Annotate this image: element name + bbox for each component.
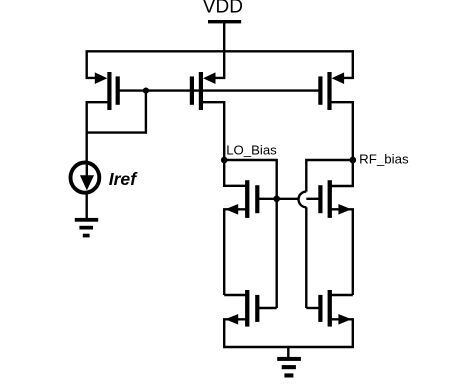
wire gate cross left segment	[277, 198, 299, 200]
svg-text:Iref: Iref	[109, 169, 139, 189]
wire ground stub	[287, 347, 289, 358]
nmos M6 channel	[328, 180, 332, 218]
pmos M3 source arrow	[332, 72, 345, 84]
nmos M7 gate bar	[318, 295, 322, 322]
wire VDD stem	[223, 23, 225, 52]
svg-text:RF_bias: RF_bias	[359, 152, 409, 167]
nmos M4 drain wire	[224, 160, 246, 186]
wire ground rail	[224, 346, 353, 348]
nmos M7 gate wire	[306, 307, 319, 309]
nmos M5 drain wire	[224, 294, 246, 296]
VDD supply bar	[208, 20, 241, 23]
nmos M5 source wire	[224, 319, 246, 347]
svg-text:LO_Bias: LO_Bias	[226, 143, 277, 158]
nmos M6 drain wire	[331, 160, 353, 186]
pmos M1 channel	[107, 72, 111, 110]
wire hop column to M7 gate	[305, 207, 307, 308]
nmos M6 source arrow	[338, 204, 351, 215]
junction dot M1 gate-drain	[143, 88, 149, 94]
ground (main)	[277, 357, 301, 378]
junction dot M4 gate	[273, 196, 280, 203]
pmos M2 gate bar	[190, 76, 194, 104]
nmos M5 source arrow	[225, 314, 238, 325]
pmos M3 channel	[327, 72, 331, 110]
pmos M3 gate bar	[318, 76, 322, 104]
nmos M5 gate wire	[259, 307, 277, 309]
nmos M6 gate bar	[318, 185, 322, 213]
pmos M1 gate wire	[119, 89, 146, 91]
wire gate cross right segment	[306, 198, 319, 200]
nmos M4 source wire	[224, 209, 246, 295]
wire Iref to ground	[85, 194, 87, 219]
nmos M5 channel	[245, 290, 249, 327]
svg-text:VDD: VDD	[203, 0, 243, 18]
pmos M3 drain wire	[331, 102, 353, 160]
nmos M7 channel	[328, 290, 332, 327]
wire top rail	[87, 50, 353, 52]
nmos M5 gate bar	[255, 295, 259, 322]
nmos M7 drain wire	[331, 294, 353, 296]
wire LO gate column lower	[276, 199, 278, 308]
nmos M4 channel	[245, 180, 249, 218]
nmos M7 source arrow	[338, 314, 351, 325]
pmos M2 source arrow	[203, 72, 216, 84]
nmos M4 gate bar	[255, 185, 259, 213]
nmos M6 source wire	[331, 209, 353, 295]
wire gate bus M1-M2-M3	[146, 89, 319, 91]
ground (Iref)	[75, 218, 98, 238]
node RF_bias dot	[349, 157, 356, 164]
nmos M4 source arrow	[225, 204, 238, 215]
current source Iref circle	[71, 163, 100, 193]
Iref arrow stem	[86, 164, 88, 180]
nmos M7 source wire	[331, 319, 353, 347]
pmos M2 drain wire	[202, 102, 224, 160]
pmos M1 source wire	[87, 51, 96, 78]
pmos M2 channel	[199, 72, 203, 110]
pmos M3 source wire	[343, 51, 353, 78]
wire hop arc	[299, 192, 307, 208]
Iref arrow head	[80, 175, 94, 190]
node LO_Bias dot	[221, 157, 228, 164]
wire RF_bias to hop column	[306, 160, 353, 192]
pmos M1 gate bar	[116, 76, 120, 104]
nmos M4 gate wire	[259, 198, 277, 200]
pmos M1 source arrow	[95, 72, 108, 84]
wire LO_Bias to gate column	[224, 160, 277, 199]
wire M1 diode loop	[87, 91, 146, 133]
pmos M2 source wire	[215, 51, 225, 78]
pmos M1 drain wire	[87, 102, 109, 162]
